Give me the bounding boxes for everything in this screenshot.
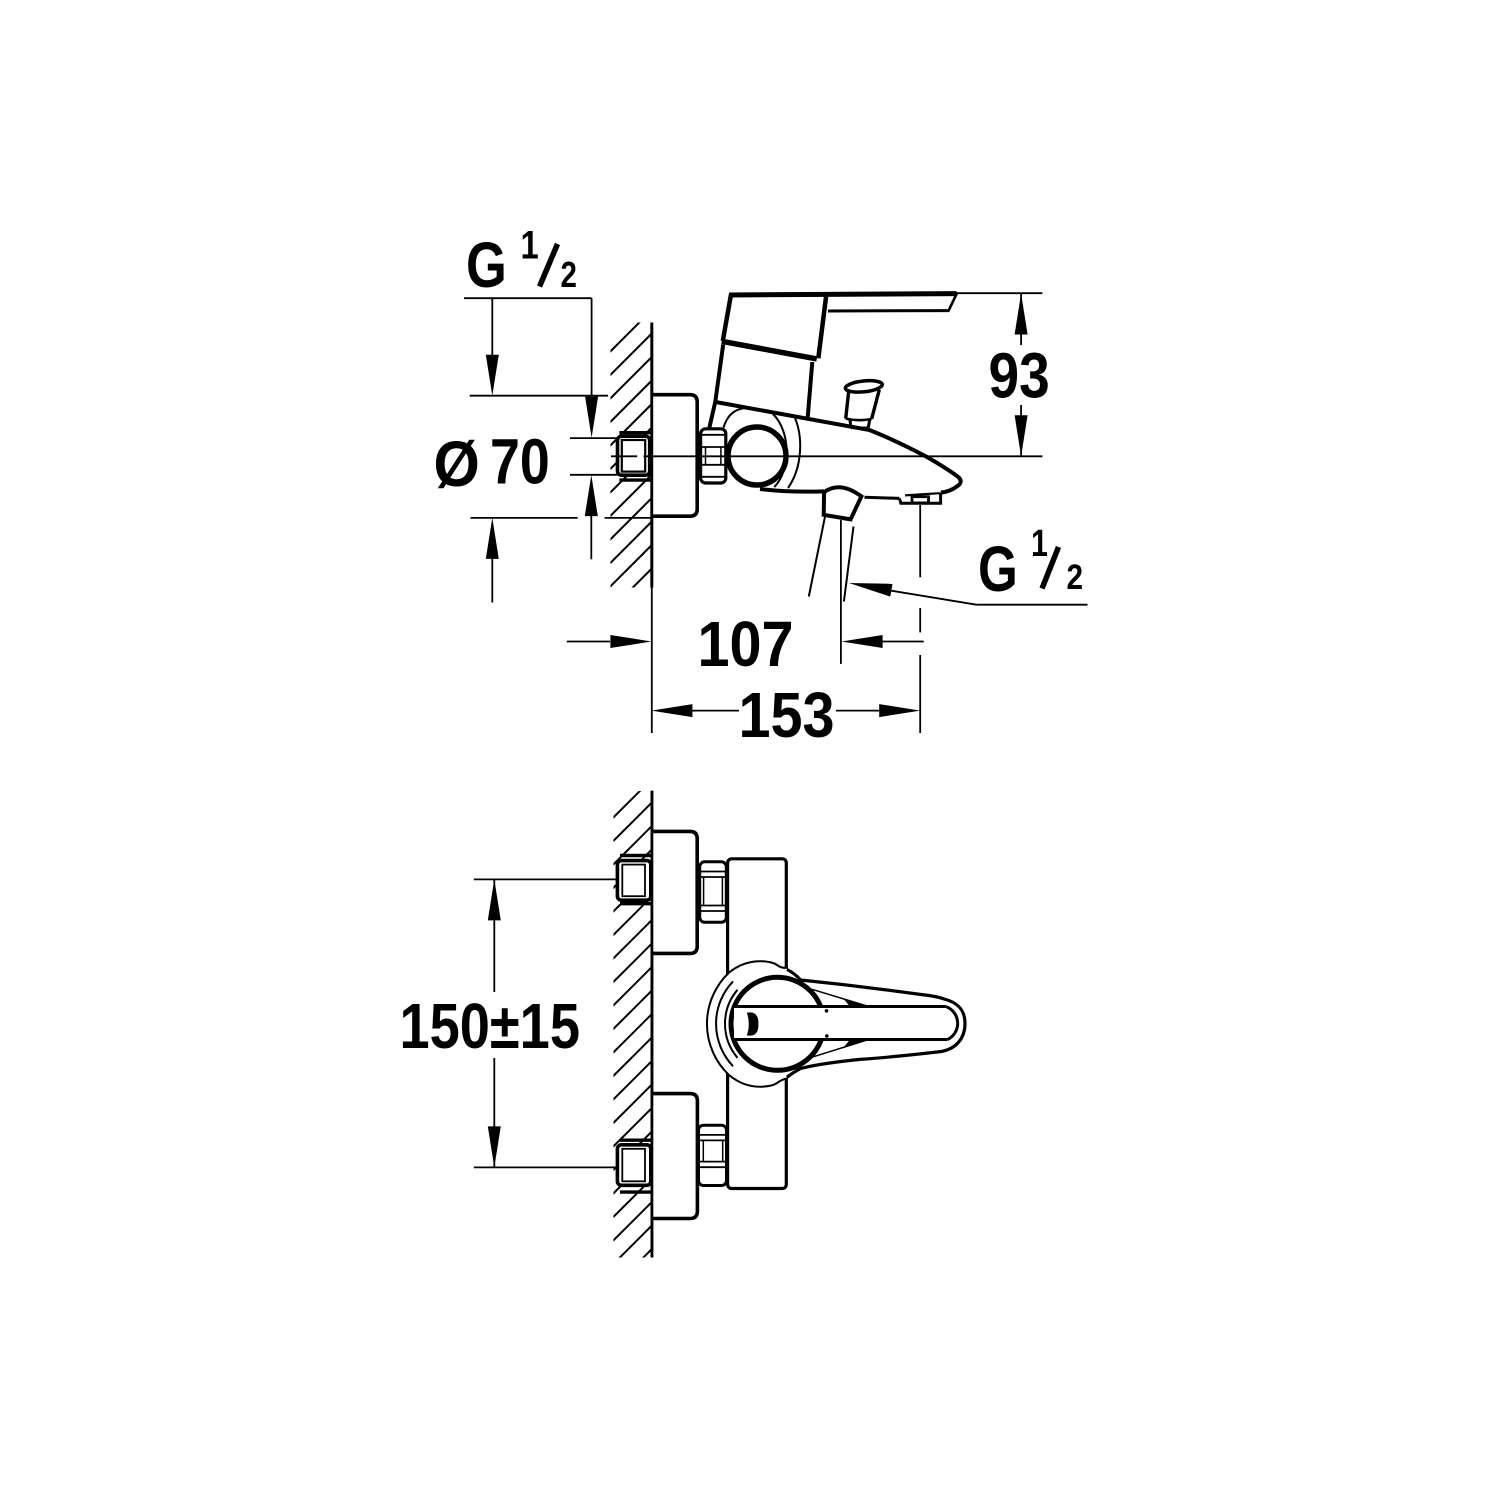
svg-text:1: 1 (1031, 523, 1048, 565)
handle flange arcs (front view) (707, 973, 729, 1075)
lever outer outline (front view) (787, 970, 965, 1078)
svg-text:G: G (978, 535, 1018, 606)
flange top contour (front view) (729, 961, 787, 972)
body underside (side view) (760, 489, 824, 492)
leader G1/2 lower right (849, 583, 893, 597)
spout aerator (side view) (899, 493, 940, 504)
cartridge housing (side view) (709, 345, 723, 428)
diverter knob (side view) (845, 379, 883, 394)
escutcheon Ø70 (side view) (651, 395, 697, 517)
dimension arrow to escutcheon top (491, 298, 493, 358)
spout underside (side view) (865, 497, 900, 498)
wall hatching (side view) (603, 310, 652, 664)
centerline (side view) (611, 455, 637, 457)
wall line redraw (side view) (650, 323, 653, 588)
lower escutcheon (front view) (651, 1094, 697, 1219)
wall line (side view) (650, 323, 653, 588)
escutcheon top extension line (470, 395, 608, 397)
wall hatching (front view) (603, 779, 652, 1321)
handle flange fill (front view) (707, 961, 787, 1086)
svg-text:150±15: 150±15 (400, 990, 580, 1062)
svg-text:G: G (466, 230, 507, 301)
svg-text:93: 93 (989, 339, 1050, 411)
lever inner shading lines (front view) (812, 989, 867, 1006)
153 extension line at spout outlet (dashed) (919, 505, 921, 577)
107 extension line at wall (651, 588, 653, 734)
sphere-cone arc outer (side view) (788, 415, 800, 488)
dimension 107 row (567, 641, 610, 643)
sphere-cone arc inner (side view) (773, 414, 787, 487)
faucet body and spout (side view) (714, 402, 961, 493)
upper square fitting (front view) (620, 854, 651, 857)
handle set screw mark (front view) (747, 1012, 759, 1035)
svg-text:107: 107 (698, 608, 794, 679)
dimension 93 line and arrows (1020, 294, 1022, 457)
upper escutcheon (front view) (651, 831, 697, 953)
svg-text:1: 1 (521, 222, 539, 267)
Ø70 lower arrow (585, 475, 598, 516)
svg-text:2: 2 (561, 254, 577, 294)
wall pipe square fitting (side view) (619, 431, 651, 434)
svg-text:Ø: Ø (434, 429, 480, 500)
lower square fitting (front view) (620, 1138, 651, 1141)
wall line (front view) (651, 791, 654, 1258)
mixer body (front view) (728, 859, 787, 1189)
Ø70 upper leader (570, 437, 618, 439)
Ø70 lower leader (570, 474, 618, 476)
hand shower hose (side view) (809, 515, 826, 596)
svg-text:70: 70 (490, 425, 550, 498)
ball (front view) (731, 977, 824, 1070)
svg-text:2: 2 (1067, 558, 1084, 597)
flange bottom contour (front view) (729, 1075, 787, 1087)
ball joint ring (side view) (728, 427, 786, 485)
lower hex nut (front view) (699, 1125, 727, 1185)
dimension 150±15 (474, 878, 619, 880)
wall line redraw (front view) (651, 791, 654, 1258)
upper hex nut (front view) (700, 862, 727, 923)
escutcheon bottom arrow (486, 518, 499, 559)
dimension line to wall fitting (591, 298, 593, 400)
107 extension line at hose (840, 520, 842, 664)
hand shower hose boss (side view) (824, 487, 862, 519)
dimension 93: top extension (950, 292, 1042, 294)
lever inner band (front view) (734, 1007, 958, 1040)
escutcheon bottom extension line (471, 517, 578, 519)
hex nut (side view) (701, 429, 726, 483)
lever handle (side view) (729, 294, 957, 295)
svg-text:153: 153 (739, 679, 835, 750)
dimension G1/2 top-left: underline (464, 297, 592, 299)
dome arc left (side view) (724, 408, 747, 428)
dimension 153 row (651, 704, 692, 717)
